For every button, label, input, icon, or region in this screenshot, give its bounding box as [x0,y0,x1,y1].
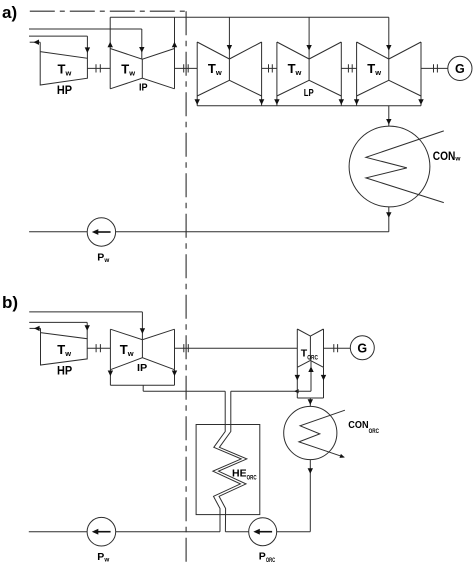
arrow IP exhaust left (a) [108,42,113,48]
wire LP exhaust header (a) [197,105,421,107]
generator G (a) [448,56,472,80]
wire LP2 exhaust right drop (a) [340,96,342,106]
pump Pw (a) [87,218,115,246]
svg-text:LP: LP [304,88,314,99]
arrow HP inlet (a) [85,47,90,53]
svg-text:IP: IP [137,362,147,374]
wire reheat steam to IP (a) [29,28,142,30]
wire LP2 inlet drop (a) [308,17,310,59]
boundary dash-dot line vertical [185,11,187,562]
wire LP3 inlet drop (a) [388,17,390,59]
turbine HP (b) [41,328,88,365]
wire LP3 exhaust left drop (a) [356,96,358,106]
wire HP inlet drop (a) [86,36,88,58]
arrow HP exhaust (a) [33,40,39,45]
arrow LP2 exhaust right (a) [339,99,344,105]
shaft coupling HP-IP (a) [87,64,110,72]
wire ORC vapor riser into TORC (b) [310,360,312,391]
svg-text:G: G [357,341,367,355]
wire TORC exhaust right drop (b) [323,367,325,398]
arrow LP1 inlet (a) [227,45,232,51]
shaft coupling HP-IP (b) [87,344,110,352]
turbine LP3 (a) [357,42,421,96]
wire crossover header (a) [110,16,389,18]
pump arrow PORC (b) [258,531,272,533]
wire IP exhaust riser left (a) [109,17,111,48]
wire TORC exhaust header (b) [297,397,323,399]
wire IP exhaust riser right (a) [174,17,176,48]
heat exchanger HEORC box (b) [196,425,260,515]
wire steam into HE coil (b) [224,391,226,431]
arrow IP exhaust right (b) [172,371,177,377]
arrow LP1 exhaust left (a) [195,99,200,105]
junction arrow on vapor line (b) [294,389,298,393]
wire ORC condensate drop (b) [309,460,311,532]
arrow LP2 exhaust left (a) [274,99,279,105]
pump Pw (b) [87,517,116,546]
arrow CONORC feed (b) [308,399,313,405]
svg-text:HP: HP [57,363,72,377]
turbine LP2 (a) [277,42,341,96]
arrow ORC condensate (b) [308,468,313,474]
cooling coil zigzag CONORC (b) [299,410,345,457]
wire condensate line (a) [29,231,389,233]
generator G (b) [350,336,374,360]
wire steam to HE drop (b) [142,385,144,391]
wire condenser feed (a) [388,106,390,126]
wire ORC vapor from HE coil (b) [230,391,232,431]
wire steam to HE horizontal (b) [143,390,225,392]
shaft coupling LP3-G (a) [421,64,448,72]
shaft coupling LP2-LP3 (a) [341,64,356,72]
wire ORC condensate to pump (b) [225,531,248,533]
svg-text:a): a) [2,3,17,22]
wire water condensate line (b) [29,531,220,533]
arrow IP exhaust left (b) [108,371,113,377]
wire LP1 inlet drop (a) [228,17,230,59]
wire TORC exhaust left drop (b) [296,367,298,398]
wire LP3 exhaust right drop (a) [420,96,422,106]
wire HP exhaust (b) [30,327,41,329]
svg-text:IP: IP [139,83,148,94]
svg-text:HP: HP [57,83,72,97]
turbine LP1 (a) [197,42,261,96]
svg-text:G: G [455,62,465,76]
wire LP2 exhaust left drop (a) [276,96,278,106]
svg-text:b): b) [2,293,18,312]
shaft coupling LP1-LP2 (a) [262,64,277,72]
arrow HP exhaust (b) [34,326,40,331]
arrow IP exhaust right (a) [172,42,177,48]
pump arrow Pw (a) [97,231,111,233]
wire IP inlet drop (b) [141,312,143,340]
pump PORC (b) [249,518,277,546]
arrow HP inlet (b) [85,325,90,331]
turbine IP (b) [110,329,174,370]
arrow LP1 exhaust right (a) [259,99,264,105]
arrow TORC exhaust left (b) [295,375,300,381]
wire main steam to HP (a) [29,35,87,37]
wire IP exhaust right drop (b) [174,370,176,386]
HE coil line steam side (b) [213,425,241,532]
wire ORC vapor horizontal (b) [231,390,311,392]
wire HP inlet drop (b) [86,322,88,338]
wire main steam to HP (b) [29,321,87,323]
arrow TORC inlet (b) [308,366,313,372]
arrowhead coil exit CONORC (b) [340,454,345,458]
wire LP1 exhaust right drop (a) [261,96,263,106]
turbine TORC (b) [297,329,323,367]
condenser CONORC (b) [284,406,337,459]
wire HP exhaust (a) [30,41,41,43]
turbine HP (a) [40,42,87,85]
arrow LP2 inlet (a) [306,45,311,51]
wire IP inlet drop (a) [141,29,143,59]
HE coil line ORC side (b) [219,425,247,532]
pump arrow Pw (b) [97,531,111,533]
cooling coil zigzag CONw (a) [366,131,444,203]
boundary dash-dot line horizontal [30,10,186,12]
wire condensate drop (a) [388,207,390,232]
wire CONORC feed (b) [309,398,311,406]
wire LP1 exhaust left drop (a) [196,96,198,106]
wire CONORC to pump (b) [277,531,311,533]
wire IP exhaust header (b) [110,384,174,386]
wire reheat steam to IP (b) [29,311,142,313]
arrow LP3 exhaust left (a) [354,99,359,105]
condenser CONw (a) [349,126,430,207]
arrow TORC exhaust right (b) [321,375,326,381]
turbine IP (a) [110,49,174,89]
wire IP exhaust left drop (b) [109,370,111,386]
arrow LP3 exhaust right (a) [418,99,423,105]
arrow condensate (a) [386,212,391,218]
arrow IP inlet (b) [140,328,145,334]
shaft coupling IP-TORC (b) [175,344,298,352]
shaft coupling TORC-G (b) [324,344,351,352]
arrow IP inlet (a) [139,47,144,53]
arrow condenser feed (a) [386,119,391,125]
arrow LP3 inlet (a) [386,45,391,51]
shaft coupling IP-LP1 (a) [175,64,198,72]
